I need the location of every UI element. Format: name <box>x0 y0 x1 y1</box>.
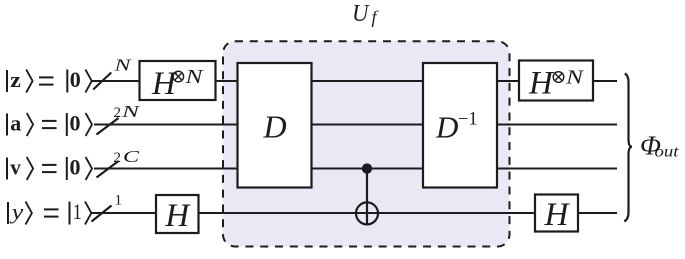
output brace <box>624 74 632 222</box>
svg-text:2: 2 <box>114 105 122 121</box>
svg-text:0: 0 <box>70 155 81 180</box>
svg-text:out: out <box>655 144 680 161</box>
gate H right (y line) <box>535 195 578 232</box>
svg-text:D: D <box>435 109 458 144</box>
svg-text:C: C <box>123 147 140 166</box>
svg-text:2: 2 <box>114 150 122 166</box>
svg-text:0: 0 <box>70 111 81 136</box>
svg-text:D: D <box>263 108 287 144</box>
bus slash a <box>97 118 119 135</box>
svg-text:N: N <box>184 66 204 88</box>
svg-text:H: H <box>151 66 178 102</box>
gate D inverse <box>423 63 497 188</box>
bus slash z <box>93 73 111 90</box>
svg-text:−1: −1 <box>458 110 478 130</box>
svg-text:y: y <box>9 199 23 224</box>
wire qubit z <box>92 80 617 82</box>
svg-text:f: f <box>372 7 380 27</box>
svg-text:v: v <box>10 155 20 180</box>
gate D <box>238 63 312 188</box>
bus slash v <box>97 161 119 178</box>
wire qubit a <box>94 124 617 126</box>
svg-text:N: N <box>565 67 585 89</box>
bus slash y <box>92 206 112 222</box>
label ket v <box>7 155 92 181</box>
svg-text:N: N <box>113 56 133 75</box>
wire qubit y <box>91 212 617 214</box>
svg-text:a: a <box>10 111 21 136</box>
svg-text:1: 1 <box>115 193 123 209</box>
control dot <box>362 163 372 173</box>
svg-text:H: H <box>164 198 191 234</box>
wire qubit v <box>94 168 617 170</box>
svg-text:1: 1 <box>73 199 82 224</box>
label ket y <box>8 199 91 225</box>
svg-text:0: 0 <box>70 67 81 92</box>
svg-text:H: H <box>544 197 571 233</box>
svg-text:z: z <box>10 67 21 92</box>
gate H tensor N left <box>140 61 216 100</box>
cnot vertical line <box>366 169 368 225</box>
svg-text:N: N <box>121 102 142 121</box>
label ket z <box>7 67 92 93</box>
gate H left (y line) <box>156 195 199 233</box>
target xor circle <box>356 202 378 224</box>
gate H tensor N right <box>519 61 593 101</box>
dashed box U_f region <box>223 41 510 246</box>
label ket a <box>7 111 92 137</box>
svg-text:H: H <box>528 66 555 102</box>
svg-text:U: U <box>352 1 370 27</box>
